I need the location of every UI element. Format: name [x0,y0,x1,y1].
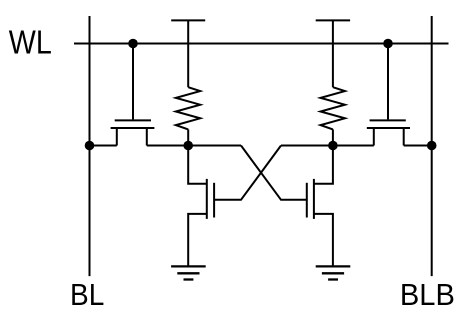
wire: M2 source to ground [314,214,333,267]
word line WL wire [74,43,449,45]
junction dot: node Q [183,141,193,151]
svg-text:BL: BL [70,277,104,312]
junction dot: BLB to node QB wire [427,141,437,151]
cross-coupling wire: node Q to M2 gate [241,146,307,200]
junction dot: WL to right access gate [383,39,393,49]
wire: node QB down to M2 drain [314,146,333,184]
VDD supply bar (left) [171,19,205,21]
resistor R2 (right load) [321,87,345,129]
cross-coupling wire: node QB to M1 gate [214,146,281,200]
ground symbol (left) [171,266,206,279]
resistor R1 (left load) [176,87,200,129]
VDD supply bar (right) [316,19,350,21]
access transistor M4 (right) [367,120,410,145]
wire: left access gate from WL [132,44,134,120]
wire: R2 bottom to node QB [332,129,334,145]
svg-text:BLB: BLB [400,277,455,312]
wire: left VDD stem to resistor [187,20,189,87]
junction dot: node QB [328,141,338,151]
bit line BLB wire [431,16,433,276]
access transistor M3 (left) [111,120,155,145]
junction dot: BL to node Q wire [85,141,95,151]
wire: M3 drain to node Q [147,145,241,147]
bit line BL wire [89,16,91,276]
driver transistor M2 (right) [307,179,314,219]
wire: M1 source to ground [188,214,207,267]
svg-text:WL: WL [9,23,52,60]
wire: M4 source to BLB [404,145,432,147]
wire: right access gate from WL [387,44,389,120]
wire: node Q down to M1 drain [188,146,207,184]
ground symbol (right) [316,266,351,279]
wire: R1 bottom to node Q [187,129,189,145]
wire: node QB to M4 drain [281,145,374,147]
driver transistor M1 (left) [207,179,214,219]
wire: right VDD stem to resistor [332,20,334,87]
junction dot: WL to left access gate [128,39,138,49]
wire: BL to M3 source [90,145,117,147]
